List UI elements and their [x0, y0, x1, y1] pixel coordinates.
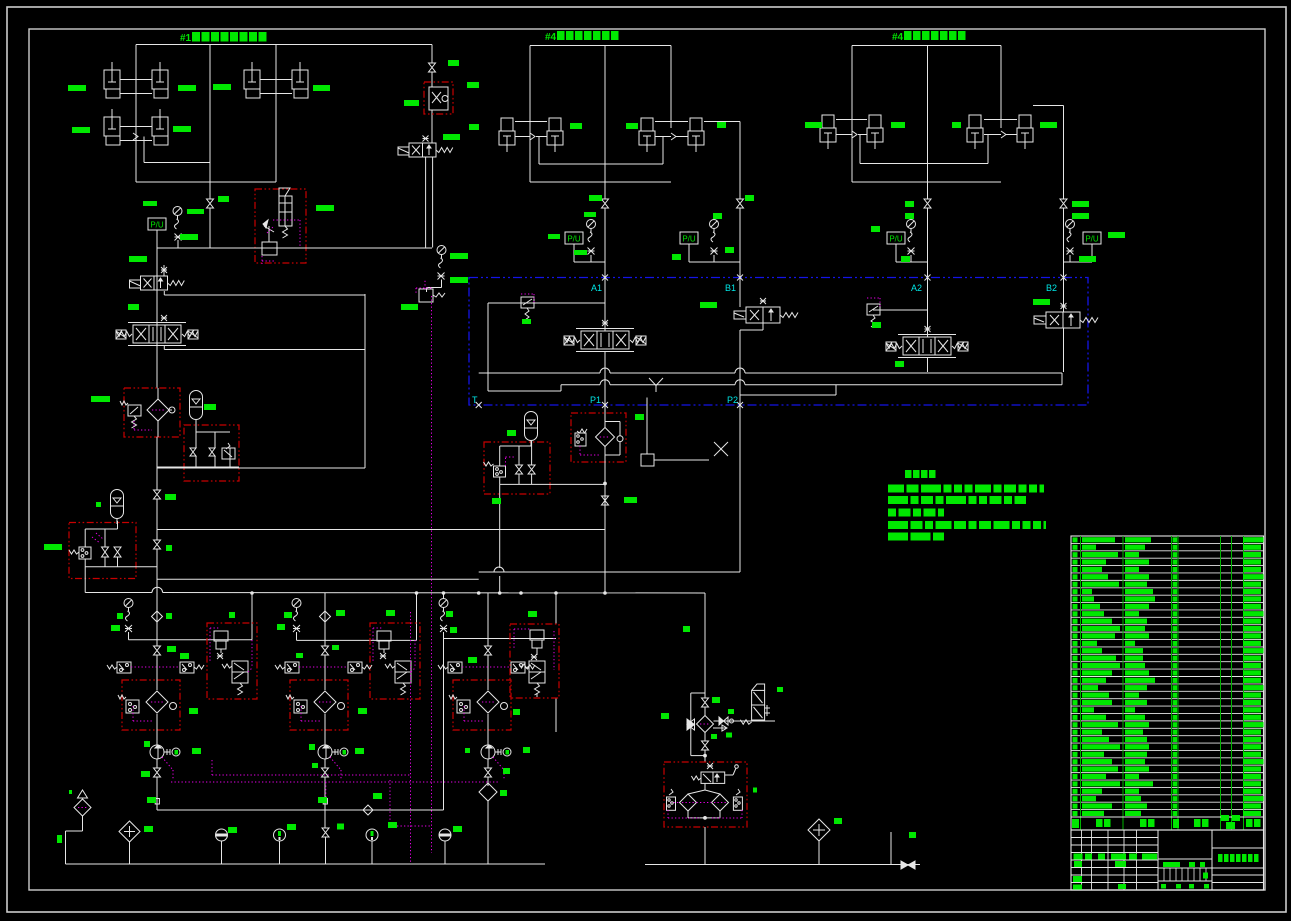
filter unit red box pump branch [449, 680, 511, 730]
throttle valve under group1 [207, 199, 214, 248]
svg-text:P2: P2 [727, 395, 738, 405]
throttle valve under group2 [602, 199, 609, 277]
air filter left bottom [66, 790, 92, 864]
gauge stem branch3 [439, 593, 556, 810]
junction dots manifold 593 [251, 592, 254, 595]
accumulator isolation red box lower left [69, 521, 157, 593]
filter unit with relief in red box P1 [571, 413, 626, 462]
accumulator A1 [190, 391, 203, 425]
pump branch 2 [324, 593, 326, 646]
wire A2 riser [927, 277, 929, 337]
test point branch [641, 398, 728, 467]
proportional valve A2 4/3 [886, 326, 968, 358]
wire [251, 593, 253, 640]
hydraulic pump [481, 730, 511, 768]
pilot solenoid pair [107, 662, 204, 673]
unloading solenoid valve [740, 684, 770, 724]
branch1 right red box with pilot cylinder [207, 623, 257, 699]
pilot line magenta B column [416, 287, 432, 289]
throttle main left 2 [154, 540, 161, 549]
filter unit red box pump branch [118, 680, 180, 730]
wire [704, 827, 706, 865]
wire [704, 593, 706, 698]
svg-text:#4: #4 [545, 32, 557, 43]
label bars [44, 60, 1125, 843]
junction [604, 482, 607, 485]
return accessories [216, 829, 452, 864]
table header row [1071, 815, 1264, 829]
wire [157, 466, 239, 468]
collector wires in valve station [479, 303, 1062, 395]
pilot operated valve in red box [255, 188, 306, 264]
sampling valves right [713, 717, 775, 731]
svg-text:B2: B2 [1046, 283, 1057, 293]
proportional valve left 4/3 [116, 315, 365, 350]
wire [604, 351, 606, 405]
tank return line left [66, 863, 546, 865]
cylinder group #4 frame positive bend [499, 46, 740, 183]
junction branch2 [155, 777, 327, 828]
accumulator P1 [525, 412, 538, 447]
svg-text:#4: #4 [892, 32, 904, 43]
svg-text:P1: P1 [590, 395, 601, 405]
hop [494, 567, 504, 572]
svg-text:P/U: P/U [682, 235, 696, 244]
title text group1 [180, 32, 267, 44]
pressure transducer P/U B1 [680, 220, 740, 263]
accumulator isolation red box (mid left) [184, 425, 239, 481]
return manifold [157, 809, 444, 811]
cylinder group #4 frame negative bend [820, 46, 1064, 200]
shutoff branch2 [322, 828, 329, 837]
valve station boundary blue dash box [469, 278, 1088, 406]
svg-text:A2: A2 [911, 283, 922, 293]
pilot line magenta lower steps [171, 760, 499, 826]
accumulator isolation red box P1 [227, 441, 605, 494]
throttle below pump [322, 768, 329, 777]
solenoid valve left 2-position [130, 248, 366, 388]
svg-text:P/U: P/U [889, 235, 903, 244]
technical notes text [888, 470, 1046, 541]
solenoid valve top center [398, 136, 453, 248]
solenoid valve B2 [1034, 277, 1098, 372]
wire [555, 593, 557, 624]
solenoid valve B1 [734, 298, 798, 405]
tank return line right [645, 864, 920, 866]
branch2 right red box with pilot cylinder [370, 623, 420, 699]
junction diamond [363, 805, 373, 815]
pressure transducer P/U group1 [148, 207, 182, 249]
throttle valve B1 riser [737, 122, 744, 278]
gauge left bottom [124, 599, 252, 640]
pump branch 1 [156, 593, 158, 646]
wire [604, 462, 606, 530]
check valve with bypass in red box top center [424, 72, 453, 143]
drain check cluster [687, 693, 714, 762]
wire A1 riser in box [604, 277, 606, 331]
svg-text:A1: A1 [591, 283, 602, 293]
throttle below pump [154, 768, 161, 777]
throttle main left [154, 490, 161, 499]
return filter right [808, 819, 830, 865]
pressure transducer P/U B2 [1064, 220, 1102, 263]
throttle valve under group3 [924, 199, 931, 277]
wire [927, 182, 929, 199]
wire [890, 832, 892, 865]
cylinder group #1-#3 frame positive bend [104, 45, 432, 183]
pressure transducer P/U A1 group2 [565, 220, 605, 263]
wire [479, 571, 740, 573]
accumulator A2 [111, 490, 124, 525]
svg-text:B1: B1 [725, 283, 736, 293]
svg-text:#1: #1 [180, 33, 192, 44]
filter unit with relief in red box left [120, 388, 180, 437]
wire [604, 182, 606, 199]
branch4 red box with pilot cylinder [510, 624, 559, 698]
hydraulic pump [150, 730, 180, 768]
wire [431, 45, 433, 64]
svg-text:P/U: P/U [1085, 235, 1099, 244]
parts list table [1071, 536, 1264, 830]
main manifold wire [157, 247, 432, 249]
drain valve [901, 861, 915, 869]
pilot line to valve left [416, 280, 445, 302]
proportional valve A1 4/3 [564, 320, 646, 352]
tank Y symbol [649, 378, 663, 392]
wire [156, 437, 158, 490]
wire mid manifolds [157, 467, 365, 469]
manual pump unit red box [664, 762, 747, 827]
throttle valve top center [429, 63, 436, 84]
wire B1 riser in box [739, 277, 741, 307]
filter unit red box pump branch [286, 680, 348, 730]
hydraulic pump [318, 730, 348, 768]
wire [927, 357, 929, 372]
title block [1071, 830, 1264, 890]
pump branch 3 [487, 593, 489, 646]
wire P2 down [739, 405, 741, 572]
wire [156, 248, 158, 388]
pilot solenoid pair [275, 662, 372, 673]
node marks [476, 275, 1067, 409]
wire [416, 593, 418, 640]
throttle P1 [602, 496, 609, 505]
title text group3 [892, 31, 966, 43]
gauge center column [427, 246, 447, 293]
breather filter [119, 821, 140, 864]
wire [364, 294, 366, 468]
relief valve pilot A2 [867, 298, 928, 327]
throttle valve B2 riser [1060, 199, 1067, 277]
wire [499, 484, 501, 568]
throttle below pump [485, 768, 492, 777]
pilot solenoid pair [438, 662, 535, 673]
pilot drain line magenta vertical [431, 296, 433, 853]
svg-text:P/U: P/U [150, 221, 164, 230]
gauge branch2 [292, 599, 417, 641]
pilot line magenta vertical 2 [410, 612, 412, 863]
wire [209, 182, 211, 199]
title text group2 [545, 31, 619, 43]
svg-text:P/U: P/U [567, 235, 581, 244]
svg-text:T: T [472, 395, 478, 405]
pressure transducer P/U A2 [887, 220, 928, 263]
wire [499, 576, 501, 593]
check filter branch3 [479, 783, 497, 864]
relief valve pilot A1 [488, 294, 605, 320]
wire P1 down [604, 405, 606, 413]
